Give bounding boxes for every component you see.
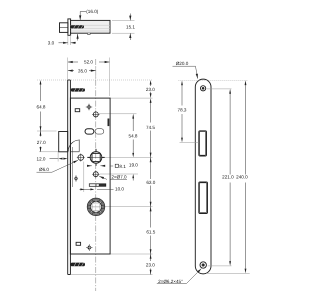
svg-text:19.0: 19.0	[129, 162, 138, 167]
svg-text:8.1: 8.1	[119, 164, 126, 169]
svg-text:61.5: 61.5	[146, 230, 155, 235]
svg-text:27.0: 27.0	[37, 140, 46, 145]
svg-text:3.0: 3.0	[48, 40, 55, 45]
svg-text:52.0: 52.0	[84, 60, 93, 65]
svg-text:23.0: 23.0	[146, 87, 155, 92]
svg-text:221.0: 221.0	[222, 174, 234, 179]
svg-text:64.8: 64.8	[37, 104, 46, 109]
svg-text:Ø20.0: Ø20.0	[176, 61, 189, 66]
svg-text:15.1: 15.1	[126, 25, 135, 30]
svg-text:2=Ø7.0: 2=Ø7.0	[111, 174, 127, 179]
svg-text:Ø6.0: Ø6.0	[39, 167, 49, 172]
svg-text:2=Ø6.2×45°: 2=Ø6.2×45°	[158, 279, 183, 284]
svg-text:10.0: 10.0	[115, 187, 124, 192]
svg-text:74.5: 74.5	[146, 125, 155, 130]
svg-text:(16.0): (16.0)	[86, 9, 98, 14]
svg-text:12.0: 12.0	[37, 156, 46, 161]
svg-text:78.3: 78.3	[178, 108, 187, 113]
svg-text:35.0: 35.0	[78, 69, 87, 74]
svg-text:23.0: 23.0	[146, 262, 155, 267]
svg-text:63.0: 63.0	[146, 180, 155, 185]
svg-text:54.8: 54.8	[129, 133, 138, 138]
svg-text:240.0: 240.0	[236, 174, 248, 179]
